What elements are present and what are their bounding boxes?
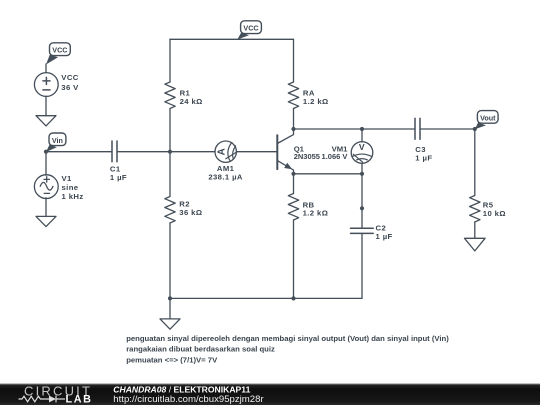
wire RB bottom xyxy=(293,220,295,298)
wire RA bottom xyxy=(293,109,295,130)
wire AM1 to Q1 base xyxy=(236,151,277,153)
svg-text:VCC: VCC xyxy=(52,45,67,54)
svg-text:VCC: VCC xyxy=(243,23,258,32)
net label Vout xyxy=(475,111,498,130)
svg-text:rangakaian dibuat berdasarkan: rangakaian dibuat berdasarkan soal quiz xyxy=(126,345,275,354)
wire Vin node down xyxy=(45,152,47,176)
node Vin tip xyxy=(44,150,48,154)
wire VM1 top xyxy=(361,129,363,142)
label R2 value xyxy=(179,200,202,217)
ground V1 xyxy=(36,216,56,226)
node emitter xyxy=(291,172,295,176)
label AM1 letter xyxy=(217,148,228,155)
svg-text:Vin: Vin xyxy=(52,136,63,145)
label C1 value xyxy=(110,164,127,182)
svg-text:http://circuitlab.com/cbux95pz: http://circuitlab.com/cbux95pzjm28r xyxy=(113,394,264,405)
svg-text:238.1 µA: 238.1 µA xyxy=(208,172,243,181)
wire C3 to Vout xyxy=(421,128,475,130)
svg-text:36 kΩ: 36 kΩ xyxy=(179,208,202,217)
wire V1 to ground xyxy=(45,198,47,217)
wire bottom rail xyxy=(170,297,362,299)
wire Vout drop xyxy=(474,129,476,196)
wire collector rail xyxy=(294,128,415,130)
svg-text:1 µF: 1 µF xyxy=(415,153,432,162)
resistor RA xyxy=(288,82,298,109)
label Q1 value xyxy=(294,144,320,161)
net label VCC left xyxy=(46,43,70,65)
node bottom RB xyxy=(291,296,295,300)
resistor RB xyxy=(288,194,298,220)
label C3 value xyxy=(415,145,432,163)
voltage source VCC xyxy=(34,73,58,97)
svg-text:LAB: LAB xyxy=(66,394,93,405)
svg-text:VCC: VCC xyxy=(61,73,78,82)
label V1 value xyxy=(62,174,84,201)
label R5 value xyxy=(483,200,506,218)
wire R2 bottom xyxy=(169,223,171,298)
label VCC value xyxy=(61,73,79,92)
node collector xyxy=(291,127,295,131)
wire emitter rail xyxy=(294,173,363,175)
wire C1 to AM1 xyxy=(118,151,215,153)
label RA value xyxy=(303,89,329,106)
wire VM1 to C2 xyxy=(361,174,363,228)
ground mid xyxy=(160,319,180,329)
ground R5 xyxy=(465,238,486,251)
wire ground mid xyxy=(169,298,171,319)
net label VCC top xyxy=(237,21,261,40)
wire VM1 bottom xyxy=(361,163,363,174)
svg-text:V: V xyxy=(359,142,365,152)
svg-text:24 kΩ: 24 kΩ xyxy=(180,97,203,106)
wire VCC source to ground xyxy=(45,96,47,116)
wire R2 top xyxy=(169,152,171,197)
wire RA top xyxy=(293,39,295,82)
logo resistor and diode xyxy=(19,396,66,403)
wire R5 bottom xyxy=(474,222,476,238)
svg-text:V1: V1 xyxy=(62,174,73,183)
resistor R1 xyxy=(165,82,175,109)
node bottom left xyxy=(168,296,172,300)
wire Vin to C1 xyxy=(46,151,111,153)
svg-text:1.2 kΩ: 1.2 kΩ xyxy=(303,97,329,106)
wire top rail xyxy=(170,38,294,40)
svg-text:1 kHz: 1 kHz xyxy=(62,192,84,201)
node base junction xyxy=(168,150,172,154)
voltmeter VM1 xyxy=(351,142,373,164)
node Vout tip xyxy=(473,127,477,131)
resistor R2 xyxy=(165,197,175,223)
ammeter AM1 xyxy=(215,141,236,162)
wire R1 bottom xyxy=(169,109,171,152)
transistor Q1 xyxy=(277,129,293,174)
capacitor C1 xyxy=(112,141,117,162)
voltage source V1 xyxy=(34,175,58,199)
label VM1 value xyxy=(322,144,349,161)
svg-text:penguatan sinyal dipereoleh de: penguatan sinyal dipereoleh dengan memba… xyxy=(126,334,449,343)
svg-text:A: A xyxy=(217,148,228,155)
svg-text:1.2 kΩ: 1.2 kΩ xyxy=(303,209,329,218)
wire C2 bottom xyxy=(361,234,363,298)
node VM1 bottom xyxy=(360,172,364,176)
svg-text:36 V: 36 V xyxy=(61,83,79,92)
resistor R5 xyxy=(470,196,480,222)
ground VCC xyxy=(36,116,56,126)
label C2 value xyxy=(376,223,393,241)
svg-text:pemuatan <=> (7/1)V= 7V: pemuatan <=> (7/1)V= 7V xyxy=(126,355,218,364)
svg-text:sine: sine xyxy=(62,183,79,192)
capacitor C2 xyxy=(351,228,374,233)
label AM1 value xyxy=(208,164,243,182)
node C2 top junction xyxy=(360,206,364,210)
capacitor C3 xyxy=(415,118,420,139)
wire R1 top xyxy=(169,39,171,82)
svg-text:10 kΩ: 10 kΩ xyxy=(483,209,506,218)
svg-text:1.066 V: 1.066 V xyxy=(322,152,348,161)
svg-text:1 µF: 1 µF xyxy=(376,232,393,241)
svg-text:1 µF: 1 µF xyxy=(110,173,127,182)
svg-text:Vout: Vout xyxy=(480,113,496,122)
wire RB top xyxy=(293,174,295,194)
svg-text:2N3055: 2N3055 xyxy=(294,152,320,161)
label R1 value xyxy=(180,89,203,106)
wire VCC label to source xyxy=(45,64,47,73)
net label Vin xyxy=(46,133,66,152)
node VM1 top xyxy=(360,127,364,131)
label RB value xyxy=(303,200,329,217)
